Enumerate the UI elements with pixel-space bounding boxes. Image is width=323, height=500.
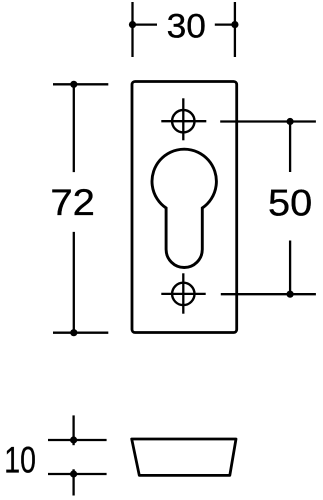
dim 30: left tick: [133, 23, 158, 25]
keyhole (euro profile cutout): [152, 149, 216, 267]
dim 10: upper dot: [70, 436, 77, 443]
dim 10: upper line segment: [72, 415, 74, 445]
dim 50: top dot: [287, 118, 294, 125]
svg-text:50: 50: [268, 181, 312, 223]
plate outline: [132, 82, 237, 333]
dim 10: upper tick: [48, 439, 107, 441]
dim 10: lower tick: [48, 473, 107, 475]
dim 30: left dot: [129, 21, 136, 28]
svg-text:10: 10: [4, 439, 36, 481]
dim 50: line upper segment: [289, 122, 291, 173]
svg-text:72: 72: [50, 181, 95, 223]
screw hole top: crosshair horizontal: [161, 120, 206, 122]
screw hole top: circle: [172, 110, 194, 132]
dim 72: bottom dot: [70, 329, 77, 336]
dim 10: lower line segment: [72, 469, 74, 495]
dim 30: left extension line: [131, 2, 133, 57]
dim 50: top extension line: [220, 120, 316, 122]
screw hole top: crosshair vertical: [182, 98, 184, 140]
svg-text:30: 30: [167, 7, 206, 45]
screw hole bottom: crosshair vertical: [182, 273, 184, 313]
screw hole bottom: crosshair horizontal: [161, 293, 205, 295]
dim 30: right extension line: [234, 2, 236, 57]
dim 30: right dot: [231, 21, 238, 28]
dim 50: bottom dot: [287, 291, 294, 298]
screw hole bottom: circle: [172, 283, 194, 305]
dim 72: bottom tick: [53, 332, 108, 334]
side view (trapezoid profile): [132, 439, 236, 475]
dim 10: lower dot: [70, 470, 77, 477]
dim 72: line lower segment: [73, 232, 75, 333]
dim 72: top tick: [53, 83, 108, 85]
dim 30: right tick: [215, 23, 235, 25]
dim 72: top dot: [70, 81, 77, 88]
dim 50: line lower segment: [289, 241, 291, 295]
dim 72: line upper segment: [73, 84, 75, 172]
dim 50: bottom extension line: [221, 293, 316, 295]
